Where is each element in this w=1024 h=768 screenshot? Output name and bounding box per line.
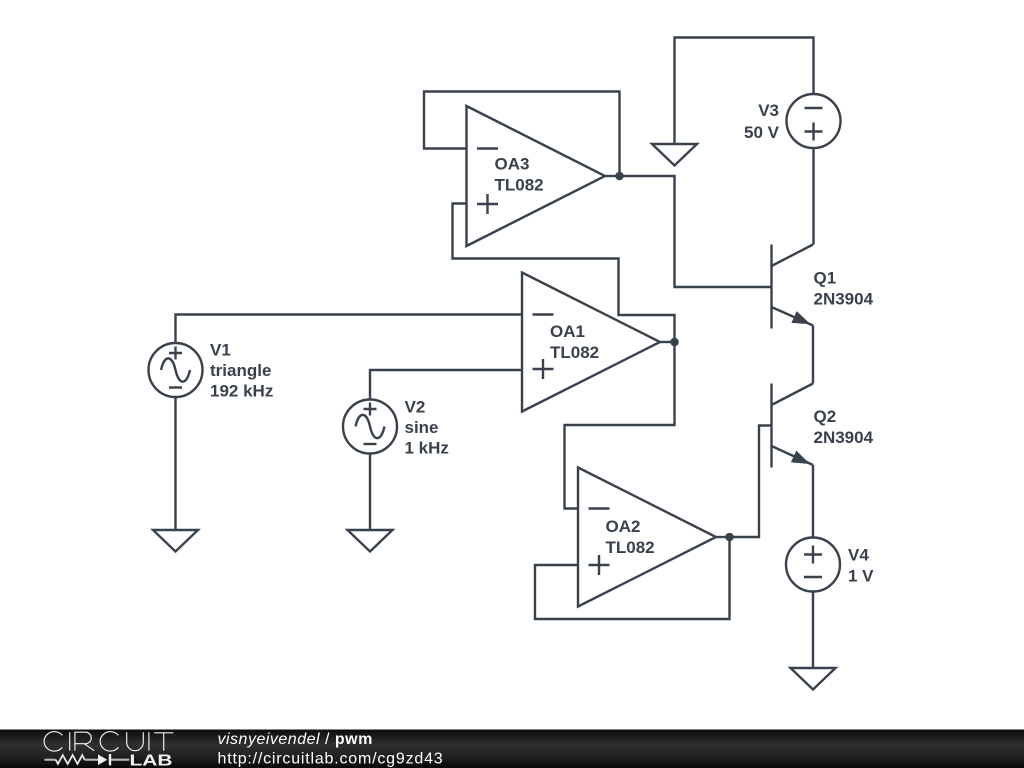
ground below V1	[153, 530, 198, 552]
svg-text:TL082: TL082	[550, 343, 599, 362]
svg-text:V3: V3	[758, 101, 779, 120]
wire OA3 plus input to OA1 output	[453, 204, 675, 343]
svg-text:Q1: Q1	[814, 269, 837, 288]
transistor Q2	[772, 384, 814, 468]
transistor Q1	[772, 245, 814, 329]
svg-text:LAB: LAB	[130, 752, 173, 768]
svg-text:OA2: OA2	[606, 517, 641, 536]
svg-text:visnyeivendel / pwm: visnyeivendel / pwm	[218, 731, 373, 748]
label OA1 TL082	[550, 322, 599, 362]
ground for V3 loop	[652, 144, 697, 166]
svg-text:192 kHz: 192 kHz	[210, 382, 273, 401]
svg-text:TL082: TL082	[606, 538, 655, 557]
label Q2 2N3904	[814, 407, 874, 447]
svg-text:50 V: 50 V	[744, 123, 780, 142]
wire Q1 emitter to Q2 collector	[812, 326, 814, 384]
wire OA1 output to OA2 minus input	[565, 342, 675, 509]
svg-text:OA1: OA1	[550, 322, 585, 341]
svg-text:V2: V2	[405, 398, 426, 417]
logo CIRCUIT letters	[44, 732, 173, 751]
svg-text:2N3904: 2N3904	[814, 290, 874, 309]
wire OA3 feedback output to minus input	[424, 92, 620, 177]
svg-text:TL082: TL082	[495, 176, 544, 195]
wire OA2 output to Q2 base	[730, 426, 772, 538]
svg-text:http://circuitlab.com/cg9zd43: http://circuitlab.com/cg9zd43	[218, 750, 444, 767]
svg-text:sine: sine	[405, 418, 439, 437]
voltage source V2	[343, 400, 397, 454]
svg-text:V4: V4	[848, 546, 869, 565]
wire V1 top to OA1 minus input	[176, 315, 523, 344]
ground below V4	[791, 668, 836, 690]
logo resistor zigzag	[44, 759, 55, 761]
label V3 50 V	[744, 101, 780, 142]
node OA2 output junction	[725, 533, 734, 542]
node OA1 output junction	[670, 338, 679, 347]
op-amp OA2	[578, 468, 730, 607]
voltage source V3	[787, 94, 841, 148]
footer bar	[0, 730, 1024, 768]
wire V1 bottom to ground	[174, 397, 176, 530]
voltage source V1	[149, 343, 203, 397]
ground below V2	[348, 530, 393, 552]
wire V2 top to OA1 plus input	[370, 370, 522, 400]
wire OA2 feedback output to plus input	[535, 537, 730, 619]
svg-text:V1: V1	[210, 341, 231, 360]
svg-text:triangle: triangle	[210, 361, 271, 380]
svg-text:1 V: 1 V	[848, 567, 874, 586]
wire Q2 emitter to V4	[812, 465, 814, 538]
node OA3 output junction	[615, 172, 624, 181]
wire V3 bottom to Q1 collector	[812, 149, 814, 245]
op-amp OA1	[522, 273, 675, 412]
label V2 sine 1 kHz	[405, 398, 449, 458]
op-amp OA3	[467, 106, 620, 246]
wire V2 bottom to ground	[369, 454, 371, 531]
label V4 1 V	[848, 546, 874, 586]
label OA3 TL082	[495, 155, 544, 195]
voltage source V4	[786, 538, 840, 592]
label Q1 2N3904	[814, 269, 874, 309]
label OA2 TL082	[606, 517, 655, 557]
wire V3 top to ground	[675, 38, 814, 145]
svg-text:1 kHz: 1 kHz	[405, 439, 449, 458]
wire V4 bottom to ground	[812, 592, 814, 668]
svg-text:OA3: OA3	[495, 155, 530, 174]
wire OA3 output to Q1 base	[620, 176, 772, 287]
label V1 triangle 192 kHz	[210, 341, 273, 401]
svg-text:Q2: Q2	[814, 407, 837, 426]
logo diode	[98, 754, 107, 765]
svg-text:2N3904: 2N3904	[814, 428, 874, 447]
